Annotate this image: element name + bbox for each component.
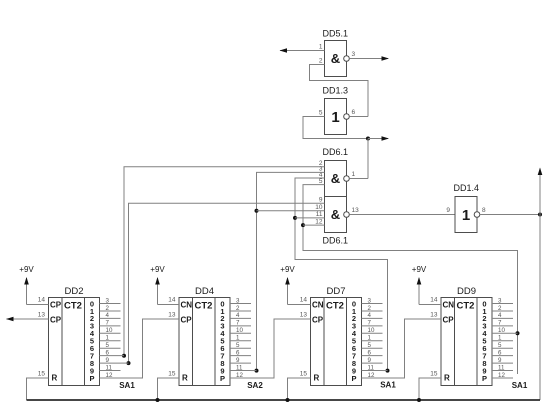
- svg-text:11: 11: [498, 364, 505, 371]
- svg-text:2: 2: [106, 305, 110, 312]
- junction dot SA1c on DD7 digit-9 row: [386, 369, 390, 373]
- junction dot SA1d on DD6.1 pin12 wire: [301, 223, 305, 227]
- wire cascade DD4.P to DD7 pin13: [230, 319, 311, 378]
- svg-text:2: 2: [319, 58, 323, 65]
- svg-text:7: 7: [498, 320, 502, 327]
- svg-text:5: 5: [319, 178, 323, 185]
- junction dot reset bus / DD9 R: [417, 398, 421, 402]
- op-gate DD5.1 label: [323, 29, 349, 39]
- svg-text:+9V: +9V: [280, 265, 295, 274]
- counter DD2 output digit labels 0-9,P: [89, 299, 94, 383]
- svg-text:CT2: CT2: [457, 300, 475, 311]
- wire DD9 switch contact digit4: [513, 332, 518, 334]
- svg-text:R: R: [314, 373, 320, 382]
- pin label 3 (DD6.1): [319, 166, 323, 173]
- svg-text:R: R: [182, 373, 188, 382]
- svg-text:13: 13: [38, 312, 46, 319]
- counter DD4 output pin number labels: [236, 297, 243, 379]
- counter DD7 (CT2 decade counter): [311, 298, 362, 386]
- counter DD4 output row wires: [230, 304, 251, 379]
- wire DD5.1 pin2 from DD1.3 output: [310, 65, 369, 117]
- wire net SA2: DD6.1 pin3 down to DD4 switch: [257, 172, 325, 370]
- switch SA1 label (DD7): [380, 380, 396, 389]
- gate DD6.1 top label: [323, 147, 349, 157]
- svg-text:CP: CP: [443, 315, 455, 324]
- wire DD2 R pin15 to reset bus: [27, 378, 49, 400]
- wire DD6.1 pin13 output to DD1.4 pin9: [349, 214, 455, 216]
- svg-text:6: 6: [106, 349, 110, 356]
- wire net SA1a: DD6.1 pin2 to DD2 switch: [124, 167, 325, 356]
- wire DD4 R pin15 to reset bus: [158, 378, 180, 400]
- svg-text:4: 4: [368, 312, 372, 319]
- counter DD9 output row wires: [492, 304, 513, 379]
- wire DD6.1 pin12 input: [303, 224, 325, 226]
- svg-text:9: 9: [498, 357, 502, 364]
- junction dot SA2 on DD6.1 pin10 wire: [255, 209, 259, 213]
- svg-text:DD9: DD9: [457, 286, 476, 297]
- counter DD4 name label: [195, 286, 214, 297]
- wire DD2 pin13 clock input: [7, 318, 49, 320]
- switch SA1 label (DD2): [119, 381, 135, 390]
- svg-text:CT2: CT2: [326, 300, 344, 311]
- pin label 5 (DD6.1): [319, 178, 323, 185]
- terminal arrow right (node A): [382, 136, 390, 141]
- gate DD5.1 (NAND) body: [325, 41, 347, 77]
- svg-text:CT2: CT2: [64, 300, 82, 311]
- svg-text:13: 13: [430, 312, 438, 319]
- svg-text:1: 1: [331, 109, 339, 126]
- svg-text:1: 1: [352, 171, 356, 178]
- svg-text:DD5.1: DD5.1: [323, 29, 349, 39]
- wire DD4 pin14 to +9V: [158, 278, 180, 305]
- counter DD9 name label: [457, 286, 476, 297]
- svg-text:6: 6: [498, 349, 502, 356]
- pin label 14 (DD9): [430, 297, 438, 304]
- gate DD6.1 output bubble pin1: [344, 176, 350, 182]
- svg-text:1: 1: [236, 335, 240, 342]
- svg-text:3: 3: [498, 297, 502, 304]
- power +9V symbol (DD7): [280, 265, 295, 285]
- svg-text:12: 12: [498, 372, 505, 379]
- wire net SA1d: DD6.1 pin5 down to DD9 switch: [303, 185, 518, 374]
- svg-text:CT2: CT2: [195, 300, 213, 311]
- svg-text:5: 5: [498, 342, 502, 349]
- svg-text:P: P: [351, 374, 356, 383]
- gate DD1.3 output bubble pin6: [344, 114, 350, 120]
- svg-text:6: 6: [236, 349, 240, 356]
- wire reset bus (bottom): [27, 399, 541, 401]
- wire node A down to DD6.1 pin1 output: [367, 139, 369, 179]
- svg-text:5: 5: [106, 342, 110, 349]
- pin label 13 (DD7): [300, 312, 308, 319]
- wire net SA1c: DD6.1 pin4 down to DD7 switch: [295, 178, 388, 371]
- svg-text:13: 13: [300, 312, 308, 319]
- power +9V symbol (DD2): [19, 265, 34, 285]
- pin label 11 (DD6.1): [316, 211, 323, 218]
- svg-text:CP: CP: [181, 315, 193, 324]
- svg-text:DD4: DD4: [195, 286, 214, 297]
- wire DD7 pin14 to +9V: [288, 278, 311, 305]
- svg-text:5: 5: [368, 342, 372, 349]
- svg-text:15: 15: [38, 371, 46, 378]
- junction dot SA2 on DD4 digit-9 row: [255, 369, 259, 373]
- terminal arrow right (DD5.1 pin3): [382, 56, 390, 61]
- pin label 1 (DD5.1): [319, 44, 323, 51]
- counter DD9 (CT2 decade counter): [441, 298, 492, 386]
- power +9V symbol (DD9): [412, 265, 427, 285]
- pin label 13 (DD9): [430, 312, 438, 319]
- wire cascade DD7.P to DD9 pin13: [362, 319, 442, 378]
- svg-text:5: 5: [319, 110, 323, 117]
- svg-text:R: R: [52, 373, 58, 382]
- wire DD2 pin14 to +9V: [27, 278, 49, 305]
- svg-text:4: 4: [236, 312, 240, 319]
- wire DD5.1 pin3 output: [349, 58, 388, 60]
- wire net SA1b: DD6.1 pin9 to DD2 switch: [129, 203, 325, 363]
- svg-text:R: R: [444, 373, 450, 382]
- svg-text:1: 1: [368, 335, 372, 342]
- pin label 8 (DD1.4): [482, 207, 486, 214]
- wire DD9 pin14 to +9V: [419, 278, 441, 305]
- svg-text:10: 10: [106, 327, 113, 334]
- svg-text:DD6.1: DD6.1: [323, 147, 349, 157]
- gate DD5.1 output bubble pin3: [344, 56, 350, 62]
- svg-text:DD2: DD2: [64, 286, 83, 297]
- wire DD1.3 output to DD5.1 pin2 riser: [349, 116, 368, 118]
- svg-text:SA1: SA1: [119, 381, 135, 390]
- svg-text:2: 2: [498, 305, 502, 312]
- switch SA1 label (DD9): [512, 381, 528, 390]
- svg-text:9: 9: [446, 207, 450, 214]
- svg-text:9: 9: [236, 357, 240, 364]
- svg-text:SA1: SA1: [512, 381, 528, 390]
- svg-text:3: 3: [236, 297, 240, 304]
- wire reset net riser up: [539, 169, 541, 215]
- svg-text:P: P: [220, 374, 225, 383]
- counter DD2 name label: [64, 286, 83, 297]
- counter DD9 output digit labels 0-9,P: [482, 299, 487, 383]
- wire cascade DD2.P to DD4 pin13: [100, 319, 180, 378]
- pin label 15 (DD2): [38, 371, 46, 378]
- counter DD4 (CT2 decade counter): [179, 298, 230, 386]
- svg-text:11: 11: [236, 364, 243, 371]
- svg-text:14: 14: [38, 297, 46, 304]
- svg-text:9: 9: [319, 197, 323, 204]
- wire DD2 switch contact digit8: [121, 362, 129, 364]
- node A junction (DD6.1 pin1 output net): [366, 137, 370, 141]
- junction dot SA1b on DD2 digit-8 row: [127, 361, 131, 365]
- svg-text:10: 10: [498, 327, 505, 334]
- wire DD1.4 pin8 output to node B: [480, 214, 540, 216]
- svg-text:&: &: [331, 51, 340, 66]
- svg-text:11: 11: [106, 364, 113, 371]
- terminal arrow left (clock input): [6, 317, 14, 322]
- svg-text:14: 14: [430, 297, 438, 304]
- svg-text:DD6.1: DD6.1: [323, 236, 349, 246]
- pin label 14 (DD4): [168, 297, 176, 304]
- counter DD2 output pin number labels: [106, 297, 113, 379]
- pin label 9 (DD1.4): [446, 207, 450, 214]
- gate DD6.1 output bubble pin13: [344, 212, 350, 218]
- pin label 3 (DD5.1): [352, 51, 356, 58]
- svg-text:DD1.4: DD1.4: [454, 183, 480, 193]
- junction dot reset bus / DD7 R: [286, 398, 290, 402]
- junction dot SA1a on DD2 digit-7 row: [122, 354, 126, 358]
- svg-text:&: &: [331, 171, 340, 186]
- counter DD9 output pin number labels: [498, 297, 505, 379]
- pin label 4 (DD6.1): [319, 172, 323, 179]
- gate DD1.3 (inverter) body: [325, 99, 347, 135]
- wire DD5.1 pin1 input: [280, 50, 325, 52]
- pin label 10 (DD6.1): [315, 204, 323, 211]
- svg-text:7: 7: [368, 320, 372, 327]
- pin label 5 (DD1.3): [319, 110, 323, 117]
- wire DD1.3 pin5 input loop from node A: [303, 117, 368, 139]
- svg-text:+9V: +9V: [19, 265, 34, 274]
- counter DD2 (CT2 decade counter): [49, 298, 100, 386]
- wire DD6.1 pin10 input: [257, 210, 325, 212]
- svg-text:14: 14: [168, 297, 176, 304]
- counter DD7 output digit labels 0-9,P: [351, 299, 356, 383]
- svg-text:SA2: SA2: [247, 381, 263, 390]
- pin label 6 (DD1.3): [352, 109, 356, 116]
- pin label 15 (DD7): [300, 371, 308, 378]
- svg-text:1: 1: [462, 207, 470, 224]
- pin label 13 (DD6.1): [352, 207, 360, 214]
- junction dot reset bus / DD4 R: [156, 398, 160, 402]
- pin label 12 (DD6.1): [315, 219, 323, 226]
- svg-text:6: 6: [352, 109, 356, 116]
- svg-text:15: 15: [430, 371, 438, 378]
- pin label 1 (DD6.1): [352, 171, 356, 178]
- gate DD6.1 bottom label: [323, 236, 349, 246]
- svg-text:3: 3: [368, 297, 372, 304]
- svg-text:P: P: [89, 374, 94, 383]
- svg-text:7: 7: [236, 320, 240, 327]
- svg-text:3: 3: [106, 297, 110, 304]
- svg-text:15: 15: [300, 371, 308, 378]
- counter DD7 output pin number labels: [368, 297, 375, 379]
- svg-text:7: 7: [106, 320, 110, 327]
- svg-text:13: 13: [168, 312, 176, 319]
- wire DD6.1 pin11 input: [295, 217, 325, 219]
- counter DD7 name label: [326, 286, 345, 297]
- svg-text:9: 9: [368, 357, 372, 364]
- junction dot SA1c on DD6.1 pin11 wire: [293, 216, 297, 220]
- wire DD7 R pin15 to reset bus: [288, 378, 311, 400]
- svg-text:14: 14: [300, 297, 308, 304]
- pin label 13 (DD4): [168, 312, 176, 319]
- svg-text:DD7: DD7: [326, 286, 345, 297]
- wire DD2 switch contact digit7: [121, 355, 125, 357]
- svg-text:3: 3: [352, 51, 356, 58]
- svg-text:11: 11: [316, 211, 323, 218]
- pin label 9 (DD6.1): [319, 197, 323, 204]
- gate DD1.3 label: [323, 86, 349, 96]
- svg-text:SA1: SA1: [380, 380, 396, 389]
- wire DD9 R pin15 to reset bus: [419, 378, 441, 400]
- svg-text:11: 11: [368, 364, 375, 371]
- svg-text:2: 2: [368, 305, 372, 312]
- pin label 14 (DD2): [38, 297, 46, 304]
- power +9V symbol (DD4): [150, 265, 165, 285]
- counter DD7 output row wires: [362, 304, 383, 379]
- terminal arrow up (reset net): [538, 168, 543, 176]
- wire DD4 switch contact digit9: [251, 370, 257, 372]
- gate DD1.4 label: [454, 183, 480, 193]
- svg-text:9: 9: [106, 357, 110, 364]
- svg-text:13: 13: [352, 207, 360, 214]
- wire node A to output arrow: [368, 138, 388, 140]
- svg-text:+9V: +9V: [150, 265, 165, 274]
- svg-text:CP: CP: [312, 315, 324, 324]
- svg-text:1: 1: [498, 335, 502, 342]
- svg-text:1: 1: [319, 44, 323, 51]
- wire reset net down right side: [539, 215, 541, 401]
- counter DD4 output digit labels 0-9,P: [220, 299, 225, 383]
- svg-text:CN: CN: [443, 300, 455, 309]
- svg-text:4: 4: [498, 312, 502, 319]
- svg-text:4: 4: [106, 312, 110, 319]
- junction dot SA1d on DD9 digit-4 row: [516, 331, 520, 335]
- svg-text:10: 10: [315, 204, 323, 211]
- svg-text:DD1.3: DD1.3: [323, 86, 349, 96]
- svg-text:12: 12: [315, 219, 323, 226]
- svg-text:P: P: [482, 374, 487, 383]
- switch SA2 label (DD4): [247, 381, 263, 390]
- wire DD6.1 pin1 output stub: [349, 178, 368, 180]
- svg-text:15: 15: [168, 371, 176, 378]
- svg-text:CN: CN: [181, 300, 193, 309]
- svg-text:5: 5: [236, 342, 240, 349]
- pin label 13 (DD2): [38, 312, 46, 319]
- svg-text:CN: CN: [312, 300, 324, 309]
- wire DD7 switch contact digit9: [383, 370, 388, 372]
- svg-text:+9V: +9V: [412, 265, 427, 274]
- svg-text:8: 8: [482, 207, 486, 214]
- node B junction (reset net): [538, 213, 542, 217]
- svg-text:6: 6: [368, 349, 372, 356]
- counter DD2 output row wires: [100, 304, 121, 379]
- svg-text:CP: CP: [50, 315, 62, 324]
- gate DD1.4 (inverter) body: [455, 197, 477, 233]
- pin label 14 (DD7): [300, 297, 308, 304]
- svg-text:10: 10: [236, 327, 243, 334]
- gate DD6.1 (dual NAND) body: [325, 161, 347, 233]
- pin label 15 (DD9): [430, 371, 438, 378]
- svg-text:&: &: [331, 207, 340, 222]
- gate DD1.4 output bubble pin8: [474, 212, 480, 218]
- svg-text:CP: CP: [50, 300, 62, 309]
- svg-text:2: 2: [236, 305, 240, 312]
- terminal arrow left (DD5.1 pin1): [280, 48, 288, 53]
- pin label 2 (DD6.1): [319, 160, 323, 167]
- svg-text:10: 10: [368, 327, 375, 334]
- svg-text:1: 1: [106, 335, 110, 342]
- pin label 2 (DD5.1): [319, 58, 323, 65]
- pin label 15 (DD4): [168, 371, 176, 378]
